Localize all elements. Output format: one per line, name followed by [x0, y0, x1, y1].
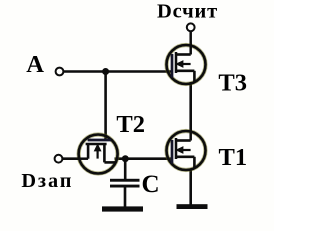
svg-text:Dсчит: Dсчит — [157, 0, 218, 22]
svg-text:T2: T2 — [116, 111, 145, 138]
svg-text:C: C — [142, 171, 160, 198]
svg-text:Dзап: Dзап — [21, 170, 73, 192]
svg-text:T3: T3 — [218, 70, 247, 97]
svg-text:T1: T1 — [219, 144, 248, 171]
svg-text:A: A — [26, 51, 44, 78]
